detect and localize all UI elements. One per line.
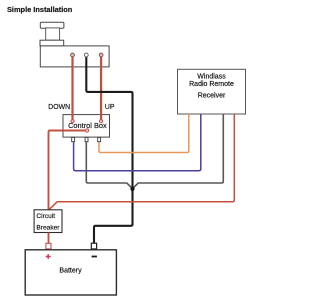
svg-text:DOWN: DOWN bbox=[48, 104, 70, 111]
windlass motor M1 body bbox=[40, 46, 109, 67]
control box bottom terminal B1 bbox=[72, 137, 75, 141]
wire orange: control box to receiver bbox=[99, 114, 189, 153]
svg-text:Circuit: Circuit bbox=[36, 213, 55, 220]
svg-text:Battery: Battery bbox=[59, 268, 82, 275]
motor terminal T3 (right) bbox=[99, 53, 103, 57]
control box terminal UP (circle) bbox=[100, 120, 103, 123]
junction node: black wire joins grey wire bbox=[130, 187, 134, 191]
wire red: motor right terminal to control box UP terminal bbox=[100, 56, 102, 121]
wire red: control box common to circuit breaker bbox=[49, 131, 86, 211]
control box terminal DOWN (circle) bbox=[71, 120, 74, 123]
control box common terminal (circle) bbox=[86, 129, 89, 132]
wire blue: control box to receiver bbox=[74, 114, 201, 171]
battery negative mark bbox=[92, 256, 97, 258]
svg-text:Breaker: Breaker bbox=[36, 224, 60, 231]
battery box bbox=[25, 250, 116, 295]
windlass motor M1 drum column bbox=[46, 28, 60, 40]
svg-text:Radio Remote: Radio Remote bbox=[189, 81, 234, 88]
battery negative terminal lug bbox=[91, 243, 96, 249]
wire black: motor centre terminal to battery negative bbox=[86, 57, 132, 244]
battery positive mark bbox=[46, 254, 51, 259]
wire red: motor left terminal to control box DOWN terminal bbox=[71, 56, 73, 121]
svg-text:Receiver: Receiver bbox=[198, 93, 226, 100]
windlass motor M1 base flange bbox=[40, 40, 64, 46]
battery positive terminal lug bbox=[46, 243, 51, 249]
circuit breaker CB1 box bbox=[34, 210, 62, 233]
windlass radio remote receiver box bbox=[178, 69, 246, 114]
svg-text:UP: UP bbox=[105, 104, 115, 111]
motor terminal T1 (left) bbox=[71, 53, 75, 57]
wire red: breaker output to battery positive bbox=[48, 233, 50, 244]
svg-text:Simple Installation: Simple Installation bbox=[7, 5, 73, 14]
control box bottom terminal B2 bbox=[85, 137, 88, 141]
control box bottom terminal B3 bbox=[98, 137, 101, 141]
wire red: receiver power lead to breaker junction bbox=[49, 114, 235, 210]
control box body bbox=[63, 115, 110, 138]
motor terminal T2 (centre) bbox=[84, 53, 88, 57]
svg-text:Windlass: Windlass bbox=[197, 74, 226, 81]
wire grey: control box to junction to receiver bbox=[86, 114, 223, 189]
windlass motor M1 drum cap bbox=[40, 22, 64, 28]
